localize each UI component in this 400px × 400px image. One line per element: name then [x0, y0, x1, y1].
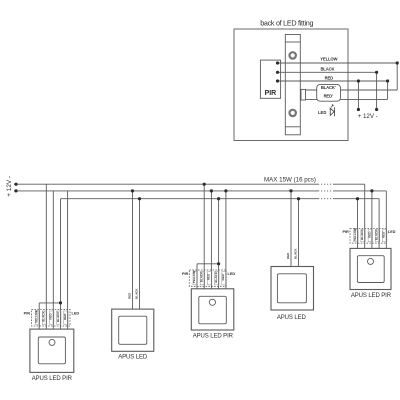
svg-text:BLACK: BLACK: [199, 271, 203, 282]
svg-text:APUS LED: APUS LED: [277, 315, 307, 321]
svg-text:BLACK': BLACK': [375, 229, 379, 240]
svg-text:APUS LED: APUS LED: [118, 354, 148, 360]
svg-text:BLACK: BLACK: [134, 288, 138, 299]
svg-text:YELLOW: YELLOW: [320, 56, 337, 61]
svg-text:LED: LED: [72, 312, 80, 316]
svg-text:MAX 15W (16 pcs): MAX 15W (16 pcs): [264, 176, 316, 183]
svg-text:RED': RED': [63, 313, 67, 320]
svg-text:PIR: PIR: [24, 312, 31, 316]
svg-text:RED: RED: [325, 76, 334, 81]
svg-text:back of LED fitting: back of LED fitting: [260, 19, 313, 28]
svg-text:RED: RED: [367, 231, 371, 238]
svg-text:RED': RED': [382, 231, 386, 238]
svg-text:APUS LED PIR: APUS LED PIR: [193, 334, 234, 340]
svg-text:BLACK: BLACK: [360, 229, 364, 240]
svg-text:RED: RED: [49, 313, 53, 320]
svg-text:RED: RED: [127, 292, 131, 299]
svg-text:+ 12V -: + 12V -: [6, 176, 13, 197]
svg-text:PIR: PIR: [342, 230, 349, 234]
svg-text:RED': RED': [324, 94, 333, 99]
svg-text:PIR: PIR: [182, 272, 189, 276]
svg-text:BLACK': BLACK': [321, 85, 336, 90]
svg-text:RED: RED: [286, 252, 290, 259]
svg-text:BLACK: BLACK: [293, 248, 297, 259]
svg-text:YELLOW: YELLOW: [192, 270, 196, 283]
svg-text:BLACK': BLACK': [214, 271, 218, 282]
svg-text:YELLOW: YELLOW: [35, 310, 39, 323]
svg-text:RED': RED': [221, 273, 225, 280]
svg-text:PIR: PIR: [265, 90, 277, 97]
svg-text:BLACK: BLACK: [42, 310, 46, 321]
svg-text:RED: RED: [207, 273, 211, 280]
svg-text:LED: LED: [388, 230, 396, 234]
svg-text:LED: LED: [228, 272, 236, 276]
svg-text:BLACK': BLACK': [56, 311, 60, 322]
svg-text:+ 12V -: + 12V -: [358, 113, 378, 120]
svg-text:LED: LED: [318, 110, 326, 115]
svg-text:BLACK: BLACK: [320, 67, 334, 72]
svg-text:YELLOW: YELLOW: [353, 228, 357, 241]
svg-text:APUS LED PIR: APUS LED PIR: [32, 376, 73, 382]
svg-text:APUS LED PIR: APUS LED PIR: [351, 293, 392, 299]
